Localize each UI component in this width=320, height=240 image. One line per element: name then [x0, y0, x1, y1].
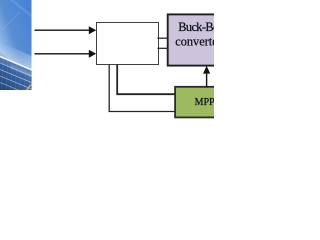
- svg-text:converter: converter: [175, 35, 214, 49]
- svg-text:MPPT: MPPT: [195, 97, 214, 108]
- svg-text:Buck-Boost: Buck-Boost: [178, 20, 214, 34]
